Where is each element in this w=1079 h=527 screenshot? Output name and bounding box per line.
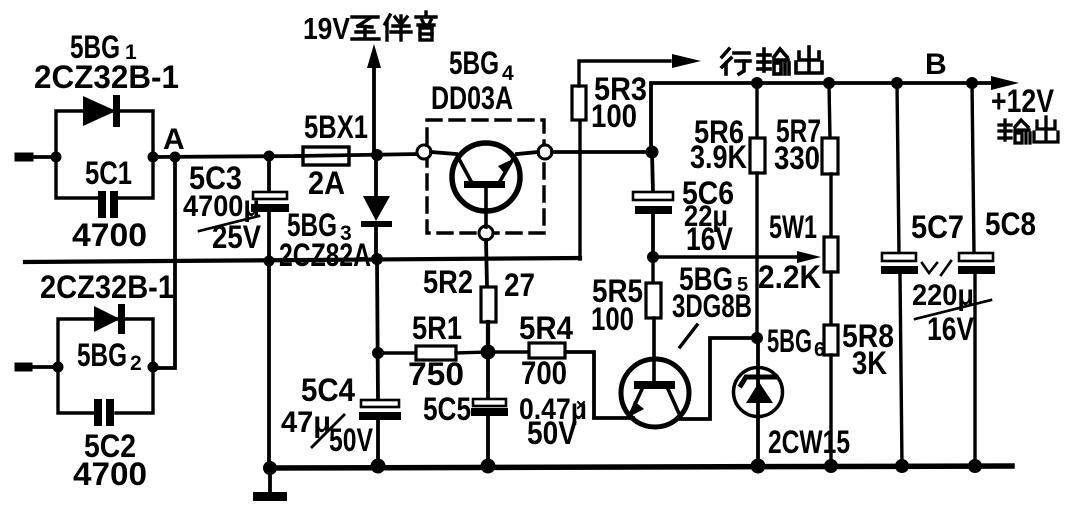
svg-text:19V: 19V [303, 11, 350, 46]
wire: wiper arm to 5W1 [653, 251, 821, 263]
svg-text:2CZ82A: 2CZ82A [279, 237, 371, 273]
svg-text:6: 6 [814, 339, 825, 361]
fuse 5BX1 [296, 147, 418, 165]
junction dot 5R1 left [372, 347, 384, 359]
wire: 5R4 to 5BG5 emitter [564, 352, 633, 418]
svg-text:B: B [925, 48, 947, 81]
slash 25V [199, 216, 259, 231]
junction dot 5R8 bottom [824, 459, 838, 473]
scan mark after 0.47u [578, 402, 584, 408]
wire: bus node down to ground [267, 261, 271, 468]
svg-text:16V: 16V [686, 221, 734, 257]
svg-text:2A: 2A [308, 165, 345, 201]
svg-text:5BG: 5BG [449, 45, 499, 81]
svg-text:50V: 50V [527, 415, 578, 451]
svg-text:2: 2 [130, 352, 142, 375]
capacitor 5C3 plates [251, 192, 289, 212]
capacitor 5C2 plates [94, 399, 114, 426]
svg-text:16V: 16V [927, 311, 975, 347]
capacitor 5C4 [359, 400, 401, 466]
char yin [416, 12, 436, 40]
svg-text:5C1: 5C1 [85, 155, 132, 191]
wire: main rail node A to fuse [153, 156, 303, 157]
wire: ground bus bottom [268, 466, 1012, 468]
svg-text:2CW15: 2CW15 [768, 424, 850, 460]
svg-text:5R1: 5R1 [412, 310, 462, 346]
transistor 5BG4 dashed box [427, 120, 544, 233]
junction dot zener bottom [751, 459, 766, 474]
capacitor 5C5 [471, 352, 508, 466]
potentiometer 5W1 [824, 237, 838, 272]
capacitor 5C1 plates [98, 191, 118, 218]
wire: 5BG4 emitter to output node [552, 150, 645, 154]
terminal circle 5BG4 collector pin [417, 145, 431, 159]
wire: node A down to 5BG2 [153, 157, 175, 368]
wire: 19V feed arrow up [367, 44, 381, 155]
junction dot base divider [481, 345, 496, 360]
diode 5BG1 symbol [83, 95, 120, 127]
svg-text:5W1: 5W1 [769, 209, 817, 245]
char zhi [352, 17, 379, 39]
junction dot 5R7 top [823, 77, 835, 89]
junction dot 5C7 top [891, 77, 903, 89]
junction dot bus 5C3 [264, 256, 275, 267]
transistor 5BG5 body [621, 359, 689, 427]
svg-text:5BG: 5BG [77, 337, 127, 373]
svg-text:+12V: +12V [991, 83, 1055, 119]
junction dot loop2 right [148, 362, 159, 373]
svg-text:A: A [163, 123, 185, 156]
wire: bus to 5C4 [377, 259, 378, 400]
svg-text:700: 700 [521, 355, 567, 391]
slash 16V [915, 300, 991, 319]
svg-text:5BX1: 5BX1 [304, 109, 368, 145]
resistor 5R5 [646, 257, 661, 382]
junction dot fuse-right node [371, 149, 383, 161]
wire: 5BG5 collector to zener node [681, 338, 757, 419]
zener diode 5BG6 [734, 338, 783, 466]
svg-text:2.2K: 2.2K [758, 259, 821, 295]
resistor 5R6 [750, 83, 765, 338]
svg-text:330: 330 [774, 140, 820, 176]
junction dot zener node [751, 332, 763, 344]
svg-text:5BG: 5BG [767, 323, 812, 359]
svg-text:50V: 50V [329, 422, 374, 458]
char ban [385, 15, 411, 40]
svg-text:3.9K: 3.9K [690, 139, 747, 175]
diode 5BG2 loop frame [58, 319, 153, 413]
resistor 5R3 [572, 54, 701, 259]
junction dot 5C8 top [966, 77, 978, 89]
polarity marks [922, 261, 951, 275]
junction dot output node [646, 146, 659, 159]
transistor 5BG4 body [431, 143, 538, 227]
ground symbol [253, 468, 287, 501]
diode 5BG1 loop frame [56, 111, 153, 198]
junction dot base-drive node [647, 251, 659, 263]
label output shu2 [999, 120, 1030, 143]
svg-text:2CZ32B-1: 2CZ32B-1 [34, 59, 179, 95]
svg-text:100: 100 [591, 301, 634, 337]
pointer to 5BG5 [680, 325, 697, 347]
junction dot loop1 right [148, 152, 159, 163]
resistor 5R2 [481, 240, 496, 352]
wire: left AC input stub top [17, 155, 56, 159]
wire: +12V top bus [651, 76, 1019, 152]
junction dot 5C5 bottom [481, 459, 496, 474]
label line output shu [758, 49, 789, 74]
diode 5BG2 symbol [94, 304, 125, 334]
junction dot loop1 left [51, 152, 62, 163]
wire: common bus middle [25, 258, 580, 262]
svg-text:2CZ32B-1: 2CZ32B-1 [40, 269, 174, 305]
resistor 5R1 [378, 346, 488, 360]
junction dot 5R6 top [751, 77, 763, 89]
capacitor 5C7 [881, 83, 918, 466]
junction dot 5C4 bottom [371, 459, 386, 474]
resistor 5R4 [488, 343, 565, 358]
slash 5C4 [312, 415, 344, 447]
capacitor 5C3 leads [267, 156, 271, 262]
svg-text:5C5: 5C5 [423, 391, 471, 427]
junction dot loop2 left [53, 362, 64, 373]
resistor 5R7 [822, 83, 838, 237]
svg-text:3DG8B: 3DG8B [672, 288, 752, 324]
svg-text:3K: 3K [852, 345, 887, 381]
junction dot bus 5BG3 [371, 253, 383, 265]
svg-text:5C4: 5C4 [301, 372, 355, 408]
terminal circle 5BG4 base pin [479, 226, 493, 240]
svg-text:27: 27 [504, 267, 535, 303]
svg-text:5R2: 5R2 [423, 264, 473, 300]
label line output chu [796, 47, 822, 73]
capacitor 5C8 [958, 83, 995, 466]
junction dot 5C8 bottom [968, 459, 982, 473]
svg-text:100: 100 [591, 98, 637, 134]
wire: left AC input stub bottom [17, 365, 58, 369]
label line output hang [722, 49, 750, 74]
node A dot [170, 152, 181, 163]
svg-text:4700: 4700 [72, 217, 147, 253]
diode 5BG3 branch [361, 155, 392, 260]
junction dot 5C3 top [264, 151, 275, 162]
svg-text:DD03A: DD03A [431, 80, 513, 116]
svg-text:750: 750 [408, 356, 464, 392]
svg-text:5R4: 5R4 [519, 310, 573, 346]
junction dot 5C7 bottom [895, 459, 909, 473]
label output chu2 [1034, 117, 1058, 142]
svg-text:5C8: 5C8 [985, 206, 1036, 242]
capacitor 5C6 [633, 152, 673, 257]
junction dot ground bus left [263, 461, 277, 475]
svg-text:5C7: 5C7 [911, 209, 964, 245]
svg-text:4700: 4700 [73, 456, 147, 492]
resistor 5R8 [824, 272, 838, 466]
terminal circle 5BG4 emitter pin [538, 145, 552, 159]
svg-text:25V: 25V [212, 219, 262, 255]
